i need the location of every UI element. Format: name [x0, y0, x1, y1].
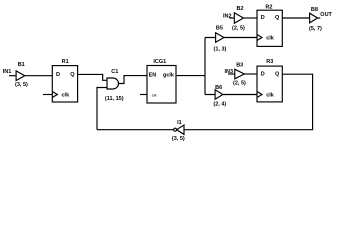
- wire B6 to R3.clk: [223, 94, 257, 96]
- svg-text:ICG1: ICG1: [153, 59, 166, 65]
- svg-text:EN: EN: [149, 72, 157, 78]
- svg-text:Q: Q: [275, 71, 280, 77]
- wire R1 clk stub: [43, 94, 52, 96]
- flip-flop R3: [257, 66, 282, 102]
- svg-text:(1, 3): (1, 3): [214, 46, 227, 52]
- flip-flop R2: [257, 10, 282, 46]
- svg-text:gclk: gclk: [163, 72, 175, 78]
- svg-text:(3, 5): (3, 5): [15, 82, 28, 88]
- svg-text:(3, 5): (3, 5): [172, 136, 185, 142]
- inverter I1: [177, 125, 184, 134]
- wire C1 output to ICG1.EN: [119, 76, 147, 84]
- wire R3.Q feedback to bottom rail: [184, 74, 313, 130]
- svg-text:B1: B1: [18, 62, 25, 68]
- buffer B5: [216, 33, 224, 43]
- buffer B2: [234, 13, 243, 23]
- svg-text:(5, 7): (5, 7): [309, 26, 322, 32]
- svg-text:(2, 5): (2, 5): [233, 80, 246, 86]
- svg-text:D: D: [261, 15, 265, 21]
- wire B2 to R2.D: [243, 17, 257, 19]
- wire B8 to OUT: [318, 17, 321, 19]
- buffer B8: [310, 13, 318, 23]
- and-gate C1: [107, 78, 118, 89]
- svg-text:I1: I1: [177, 120, 182, 126]
- svg-text:clk: clk: [152, 93, 157, 97]
- svg-text:clk: clk: [266, 35, 275, 41]
- svg-text:(2, 4): (2, 4): [213, 101, 226, 107]
- svg-text:(11, 15): (11, 15): [105, 96, 124, 102]
- svg-text:D: D: [261, 71, 265, 77]
- wire B5 to R2.clk: [224, 37, 257, 39]
- wire R1.Q to C1 top input: [78, 74, 107, 80]
- wire IN3 to B3: [228, 73, 235, 75]
- svg-text:Q: Q: [70, 72, 75, 78]
- svg-text:clk: clk: [62, 92, 71, 98]
- buffer B3: [235, 69, 245, 79]
- svg-text:OUT: OUT: [320, 12, 332, 18]
- clock wedge R3: [257, 92, 262, 98]
- wire ICG1 clk stub: [140, 94, 147, 96]
- svg-text:Q: Q: [275, 15, 280, 21]
- wire R2.Q to B8: [282, 17, 309, 19]
- wire IN2 to B2: [230, 17, 235, 19]
- svg-text:IN1: IN1: [3, 69, 12, 75]
- wire IN1 to B1: [9, 75, 16, 77]
- svg-text:B6: B6: [215, 85, 222, 91]
- wire ICG1.gclk fanout: [176, 38, 216, 95]
- svg-text:C1: C1: [111, 69, 118, 75]
- svg-text:B8: B8: [311, 7, 318, 13]
- svg-text:R1: R1: [62, 59, 69, 65]
- clock-gate ICG1: [147, 66, 176, 104]
- clock wedge R2: [257, 35, 262, 41]
- buffer B6: [215, 90, 223, 99]
- svg-text:IN3: IN3: [225, 69, 234, 75]
- svg-text:R3: R3: [266, 59, 273, 65]
- wire I1 output to C1: [97, 129, 174, 131]
- buffer B1: [16, 71, 25, 81]
- svg-text:D: D: [56, 72, 60, 78]
- svg-text:IN2: IN2: [223, 14, 232, 20]
- svg-text:clk: clk: [266, 92, 275, 98]
- svg-text:B2: B2: [237, 6, 244, 12]
- bubble I1: [174, 128, 177, 131]
- flip-flop R1: [52, 66, 77, 102]
- wire C1 bottom input from rail: [97, 88, 107, 130]
- clock wedge R1: [52, 92, 57, 98]
- wire B1 to R1.D: [25, 75, 53, 77]
- svg-text:B5: B5: [216, 26, 223, 32]
- svg-text:B3: B3: [236, 63, 243, 69]
- svg-text:R2: R2: [265, 4, 272, 10]
- svg-text:(2, 5): (2, 5): [232, 26, 245, 32]
- wire B3 to R3.D: [244, 73, 257, 75]
